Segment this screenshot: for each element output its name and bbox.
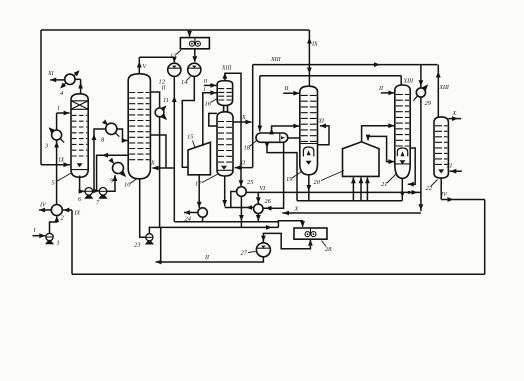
wire XIII overhead column 16	[224, 73, 226, 81]
svg-text:10: 10	[124, 182, 131, 189]
column 21 arch	[397, 148, 407, 156]
svg-text:16: 16	[205, 101, 212, 108]
wire pump 23 discharge run	[149, 227, 278, 233]
svg-text:X: X	[150, 161, 155, 167]
wire air cooler 13 to drum 14	[194, 49, 196, 62]
cooler 11 arrows	[163, 106, 166, 109]
wire drum 18 bottoms to exchanger 26	[263, 143, 283, 209]
wire IV bottoms of column 22	[440, 178, 442, 200]
svg-text:XI: XI	[47, 71, 55, 77]
exchanger 3 arrows	[50, 128, 53, 131]
column 17 bottom line	[217, 169, 233, 171]
svg-text:11: 11	[163, 97, 169, 104]
air cooler 28	[294, 228, 327, 239]
svg-text:XI: XI	[239, 161, 247, 167]
svg-text:19: 19	[286, 176, 293, 183]
wire right recycle down	[484, 200, 486, 275]
cooler 11	[155, 108, 164, 117]
wire second draw column 10	[150, 135, 166, 168]
exchanger 9	[113, 163, 124, 174]
column 5 level mark	[77, 163, 83, 167]
column 5 bottom line	[71, 169, 88, 171]
svg-text:5: 5	[52, 180, 55, 187]
pump 7	[99, 188, 107, 196]
svg-text:XI: XI	[318, 119, 326, 125]
svg-text:23: 23	[134, 242, 140, 249]
svg-text:21: 21	[381, 181, 387, 188]
wire drum 27 to air cooler 28	[263, 233, 310, 248]
exchanger 26	[254, 204, 263, 213]
wire XIII drop to XI feed of column 17	[252, 65, 254, 168]
wire II feed column 19	[283, 92, 299, 94]
svg-text:XIII: XIII	[403, 79, 415, 85]
wire II product run	[156, 257, 264, 262]
wire column 10 draw to pump 7	[97, 155, 129, 191]
svg-text:XIII: XIII	[439, 85, 450, 91]
exchanger 24	[198, 208, 207, 217]
svg-text:15: 15	[187, 134, 193, 141]
column 17 left loop	[209, 113, 217, 126]
wire II draw to cooler 11 upper	[150, 92, 159, 108]
wire drum 18 bottoms	[267, 142, 297, 200]
svg-text:28: 28	[325, 246, 332, 253]
pump 23	[146, 234, 153, 241]
column 21 right loop	[408, 148, 415, 184]
wire tank 20 vapor to column 21	[362, 126, 395, 142]
wire vapor header column 21 to drum 18	[260, 75, 401, 77]
svg-text:X: X	[452, 111, 457, 117]
svg-text:1: 1	[57, 240, 60, 247]
svg-text:29: 29	[425, 100, 432, 107]
pump 1	[46, 233, 53, 240]
wire V overhead of column 10	[138, 57, 140, 73]
wire IV product	[39, 209, 51, 211]
wire VI line	[246, 191, 421, 193]
wire column 5 overhead	[80, 79, 82, 93]
svg-text:VI: VI	[260, 186, 267, 192]
column 21 level mark	[400, 160, 406, 164]
svg-text:22: 22	[426, 185, 433, 192]
air cooler 13	[180, 38, 209, 49]
wire furnace transfer to column 16	[203, 93, 217, 146]
column 19 level mark	[306, 161, 312, 165]
wire tank 20 roof loop	[368, 136, 394, 161]
svg-text:X: X	[241, 115, 246, 121]
wire X stub column 22	[448, 118, 461, 120]
exchanger 2	[51, 205, 62, 216]
wire XI arrow into column 17	[235, 167, 253, 169]
wire bottoms collector to exchanger 25 line	[225, 207, 254, 209]
column 19 right loop	[318, 126, 330, 145]
svg-text:25: 25	[247, 179, 253, 186]
wire top header from pump station	[41, 29, 309, 31]
wire drum 18 overhead to column 19	[272, 126, 300, 133]
wire exchanger 8 to column 10	[117, 129, 128, 141]
column 17 level mark	[221, 166, 227, 170]
wire column 17 bottoms	[224, 176, 226, 207]
column 21	[395, 85, 410, 178]
wire X stub from column 17 top	[233, 121, 252, 123]
svg-text:3: 3	[44, 143, 48, 150]
exchanger 8	[106, 123, 117, 134]
node junction on XIII header	[308, 63, 310, 65]
column 19 arch	[303, 147, 313, 157]
svg-text:20: 20	[314, 179, 321, 186]
svg-text:26: 26	[265, 198, 272, 205]
wire XIII riser column 22	[437, 65, 439, 118]
wire exchanger train riser	[56, 140, 58, 205]
wire X return into column 10	[152, 167, 174, 169]
wire recycle riser to exchanger 2	[71, 210, 73, 274]
vacuum drum 14	[188, 63, 201, 76]
wire pump 6 to exchanger 8	[93, 129, 106, 191]
wire column 5 bottoms to pump 6	[80, 176, 85, 192]
wire link pump run to II run	[160, 227, 162, 262]
svg-text:XI: XI	[446, 164, 454, 170]
node junction dots on VI line	[408, 191, 411, 194]
wire branch down to air cooler 13	[189, 30, 191, 37]
column 21 bottom line	[395, 163, 410, 165]
exchanger 3	[52, 130, 62, 140]
furnace 15	[188, 142, 210, 175]
wire riser to air cooler 28	[278, 221, 302, 228]
column 5	[71, 94, 88, 177]
wire pump 1 to exchanger 2	[50, 216, 57, 233]
wire furnace bottoms to exchanger 24	[198, 175, 200, 208]
column 16	[217, 81, 232, 106]
wire II feed column 21	[381, 92, 395, 94]
wire drum 12 condensate line	[173, 76, 175, 221]
column 19	[300, 86, 318, 175]
svg-text:13: 13	[170, 53, 176, 60]
wire recycle into exchanger 2	[63, 209, 72, 211]
wire XIII header	[253, 64, 438, 66]
wire bottom run to tank 20	[297, 200, 402, 202]
condenser 4 coolant arrows	[74, 71, 78, 75]
wire column 10 bottoms to pump 23	[140, 179, 146, 238]
exchanger 25 loop	[231, 192, 237, 208]
wire exchanger 3 to column 5 feed	[56, 113, 58, 130]
svg-text:XIII: XIII	[221, 66, 232, 72]
exchanger 9 arrows	[111, 160, 114, 163]
wire exchanger 29 drop to X line	[420, 97, 422, 211]
wire exchanger 26 down	[257, 214, 259, 222]
wire cooler 11 down to bottom run	[159, 117, 161, 228]
svg-text:IX: IX	[74, 211, 81, 217]
column 10	[128, 74, 150, 179]
wire exchanger 24 outlet left	[184, 212, 198, 214]
wire column 19 bottoms	[308, 175, 310, 201]
wire column 16 vapor to exchanger 25	[225, 73, 241, 186]
svg-text:IX: IX	[311, 42, 318, 48]
wire pump 7 to exchanger 9	[107, 175, 115, 191]
wire IX riser from column 19	[308, 30, 310, 87]
exchanger 8 arrows	[104, 122, 107, 125]
wire hot bottoms collector	[175, 221, 279, 223]
exchanger 29	[416, 88, 425, 97]
column 17	[217, 112, 233, 176]
wire I feed into pump 1	[33, 235, 46, 237]
wire II feed stub column 16	[204, 84, 217, 86]
svg-text:12: 12	[159, 79, 166, 86]
column 22	[434, 117, 448, 178]
condenser 4	[65, 74, 75, 84]
svg-text:IX: IX	[58, 158, 65, 164]
wire X line	[282, 212, 421, 214]
wire XI product from condenser 4	[50, 79, 64, 81]
column 19 section line	[300, 143, 318, 145]
exchanger 29 arrows	[424, 85, 427, 89]
wire IX feed into column 5	[41, 164, 70, 166]
wire VI line into exchanger 26	[257, 192, 259, 203]
wire drum 18 to column 19 lower	[288, 137, 300, 139]
pump 6	[85, 188, 93, 196]
wire exchanger 25 down	[240, 196, 242, 227]
svg-text:18: 18	[244, 145, 251, 152]
column 16 neck	[223, 105, 225, 112]
column 22 level mark	[438, 169, 444, 173]
product drum 27	[256, 243, 270, 257]
wire exchanger 24 down	[202, 217, 204, 222]
wire header to exchanger 29	[420, 65, 422, 88]
wire left border	[40, 30, 42, 165]
vacuum drum 12	[168, 63, 181, 76]
column 5 demister section	[71, 100, 88, 102]
svg-text:X: X	[294, 207, 299, 213]
exchanger 25	[237, 187, 247, 197]
svg-text:XIII: XIII	[270, 57, 282, 63]
wire XI stub column 22	[450, 170, 462, 172]
wire bottom recycle run	[72, 273, 485, 275]
svg-text:27: 27	[241, 250, 248, 257]
wire drum 14 condensate to furnace	[182, 76, 194, 167]
reflux drum 18	[256, 133, 288, 142]
evaporator 20	[343, 142, 380, 177]
wire column 21 bottoms	[401, 178, 403, 200]
